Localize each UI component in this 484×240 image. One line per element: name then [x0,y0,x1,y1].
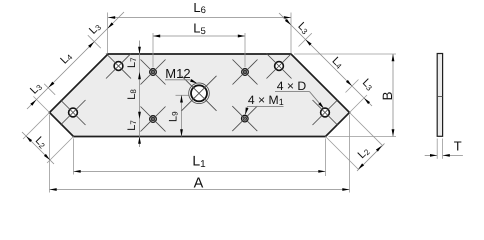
dimension line L9 [181,95,183,136]
extension line from corner TL (vertical, for L6 and L3) [107,13,109,54]
extension line from corner BR (vertical, for L1) [325,139,327,177]
dimension line L1 (bottom edge length) [74,170,326,172]
diagonal dimension line L2 (bottom-left chamfer) [22,132,54,164]
svg-text:A: A [194,176,204,192]
extension tick through hole near RV (for L4/L3) [346,80,359,93]
svg-text:M12: M12 [165,66,190,81]
extension line from top edge (horizontal, for B) [294,53,396,55]
extension line from vertex RV (vertical, for A) [349,115,351,193]
svg-text:L3: L3 [360,77,376,93]
svg-text:T: T [454,139,462,154]
extension line from hole column x=153 (for L5) [152,33,154,68]
svg-text:L3: L3 [295,20,311,36]
tapped hole M1, top-left [150,69,157,76]
svg-text:L6: L6 [193,0,206,16]
through hole D near LV vertex [69,108,78,117]
extension tick through hole near TL (for L3/L4) [88,35,101,48]
extension tick through hole near LV (for L4/L3) [44,84,55,95]
extension ray from BR down-right (for L2) [326,137,359,170]
extension line from hole column x=245 (for L5) [244,33,246,67]
extension tick through hole near TR (for L3/L4) [299,33,312,46]
mid tick on side view [437,96,442,98]
svg-text:L1: L1 [192,153,206,170]
dimension line for L7/L8/L7 (vertical at x=139.5) [139,41,141,148]
diagonal dimension line top-left (L3, L4, L3) [27,12,124,109]
extension ray from RV down-right (for L2) [350,113,384,147]
svg-text:L2: L2 [33,134,49,150]
svg-text:B: B [380,91,395,100]
tapped hole M1, top-right [242,69,249,76]
extension lines for T [436,139,438,159]
extension line from bottom edge (horizontal, for B) [329,136,397,138]
centre stub from M12 hole (for L9) [176,94,190,96]
extension ray from BL down-left (for L2) [47,137,74,164]
dimension line L6 (top edge length) [108,17,291,19]
svg-text:L5: L5 [193,21,206,37]
diagonal dimension line L2 (bottom-right chamfer) [357,144,385,172]
extension ray from LV down-left (for L2) [23,113,50,140]
svg-text:4 × M1: 4 × M1 [248,93,284,107]
svg-text:4 × D: 4 × D [277,79,307,93]
chamfer extension beyond RV (for L3) [350,95,368,113]
tapped hole M1, bottom-left [150,116,157,123]
tapped hole M1, bottom-right [242,115,249,122]
dimension line L5 (hole column spacing) [153,35,245,37]
extension line from corner BL (vertical, for L1) [73,139,75,175]
through hole D near TR corner [275,62,284,71]
diagonal dimension line top-right (L3, L4, L3) [279,13,372,106]
svg-text:L4: L4 [329,55,345,71]
extension line from vertex LV (vertical, for A) [49,115,51,193]
extension line from corner TR (vertical, for L6 and L3) [290,13,292,54]
centre tapped hole M12 [189,83,210,104]
dimension line A (overall width) [50,189,350,191]
chamfer extension beyond LV (for L3) [33,96,49,112]
plate outline (hexagonal mounting plate, plan view) [50,54,350,137]
dimension line B (overall height) [392,54,394,137]
through hole D near TL corner [114,62,123,71]
through hole D near RV vertex [321,108,330,117]
side view of plate (thickness view) [437,54,442,137]
dimension line T (thickness) [425,154,438,156]
